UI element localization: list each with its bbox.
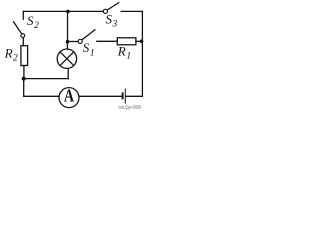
- wire right rail: [141, 11, 143, 96]
- wire middle horizontal (lamp bottom): [24, 78, 68, 80]
- wire from top junction down to S1 node: [67, 11, 69, 41]
- wire top-right horizontal: [121, 10, 142, 12]
- wire R1 to right rail: [136, 40, 143, 42]
- svg-text:zxb.Qjw-0000: zxb.Qjw-0000: [118, 105, 141, 111]
- battery positive plate (long thin): [124, 89, 126, 103]
- ammeter A: [59, 86, 79, 108]
- wire S2 to R2: [22, 38, 24, 46]
- lamp: [57, 49, 76, 68]
- resistor R2: [21, 46, 28, 66]
- node junction S1 branch: [66, 40, 70, 44]
- battery negative plate (short thick): [122, 93, 124, 98]
- wire lamp bottom stub: [67, 69, 69, 79]
- resistor R1: [117, 38, 136, 45]
- wire battery to right rail: [126, 95, 142, 97]
- wire left rail lower: [23, 79, 25, 97]
- switch S1: [68, 30, 95, 44]
- node junction left rail: [22, 77, 26, 81]
- wire bottom-left horizontal: [24, 95, 59, 97]
- wire lamp top stub: [66, 42, 68, 50]
- svg-text:S1: S1: [83, 40, 95, 58]
- wire top-left horizontal: [23, 10, 103, 12]
- svg-text:A: A: [64, 86, 74, 106]
- wire R2 to junction: [23, 66, 25, 78]
- node junction R1 right: [140, 40, 144, 44]
- node junction on top wire: [66, 10, 70, 14]
- svg-text:R2: R2: [4, 45, 18, 63]
- wire ammeter to battery: [79, 95, 121, 97]
- switch S2: [14, 22, 25, 38]
- svg-text:S2: S2: [27, 13, 39, 31]
- switch S3: [103, 3, 119, 14]
- wire S1 to R1: [97, 40, 118, 42]
- wire left rail upper stub: [22, 11, 24, 19]
- svg-text:R1: R1: [117, 44, 131, 62]
- svg-text:S3: S3: [106, 12, 118, 30]
